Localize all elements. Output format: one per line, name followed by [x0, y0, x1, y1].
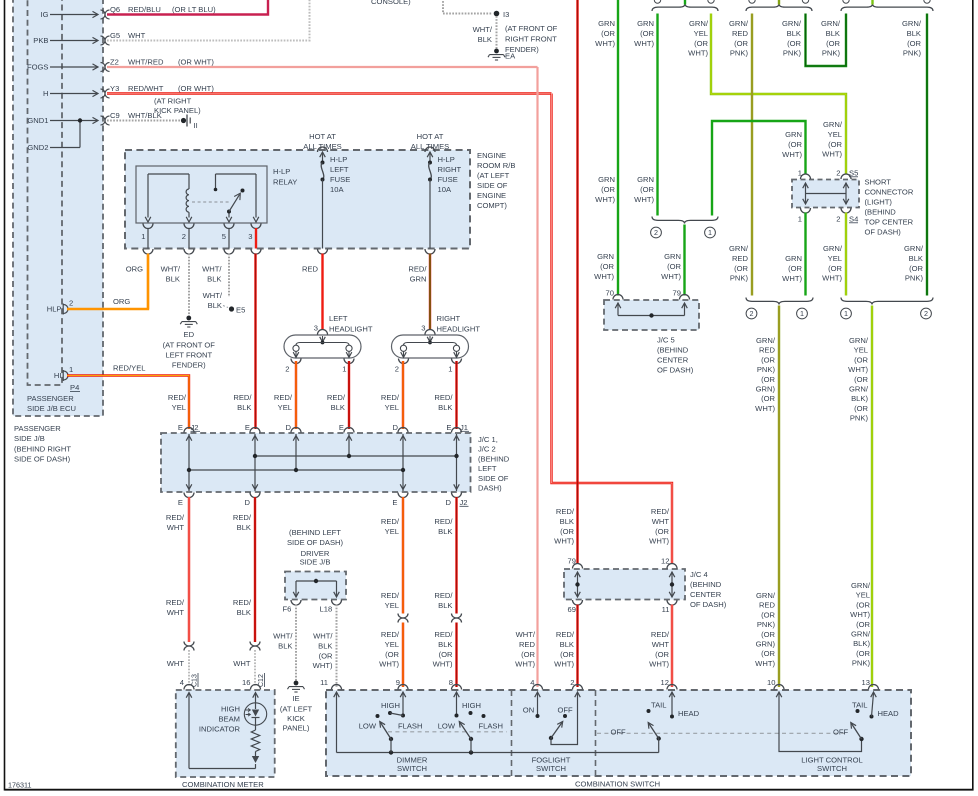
page border [4, 0, 6, 791]
svg-text:WHT): WHT) [755, 404, 775, 413]
svg-text:D: D [393, 423, 399, 432]
wire WHT/RED drop [536, 67, 538, 687]
svg-text:OFF: OFF [611, 728, 627, 737]
svg-text:TAIL: TAIL [852, 701, 867, 710]
J/C4 internals [577, 572, 579, 597]
svg-text:J/C 1,: J/C 1, [478, 435, 498, 444]
svg-text:(OR: (OR [655, 527, 669, 536]
svg-text:E: E [446, 423, 451, 432]
svg-text:COMBINATION METER: COMBINATION METER [182, 780, 264, 789]
svg-text:WHT: WHT [167, 608, 185, 617]
short connector box [792, 180, 859, 208]
svg-text:(OR: (OR [655, 650, 669, 659]
svg-text:HI: HI [54, 371, 62, 380]
ground II [181, 118, 186, 123]
svg-text:176311: 176311 [8, 781, 31, 790]
svg-text:YEL: YEL [694, 29, 708, 38]
svg-text:RED/: RED/ [434, 517, 453, 526]
meter pin cups [184, 685, 194, 690]
svg-text:(OR: (OR [856, 600, 870, 609]
brace 3b [841, 298, 933, 305]
svg-text:P4: P4 [70, 383, 79, 392]
svg-text:(OR: (OR [560, 650, 574, 659]
svg-text:PANEL): PANEL) [283, 724, 310, 733]
svg-text:(OR: (OR [826, 39, 840, 48]
svg-text:69: 69 [568, 605, 576, 614]
svg-text:(OR: (OR [761, 649, 775, 658]
junction I3 [494, 11, 500, 17]
wire LH pin2 RED/YEL [295, 361, 297, 429]
svg-text:WHT): WHT) [313, 661, 333, 670]
relay pin cups [143, 224, 153, 229]
svg-text:I3: I3 [503, 10, 509, 19]
ground IE [294, 681, 299, 686]
svg-text:LOW: LOW [438, 722, 456, 731]
svg-text:(BEHIND: (BEHIND [478, 454, 510, 463]
svg-text:(AT FRONT OF: (AT FRONT OF [505, 24, 558, 33]
svg-text:HLP: HLP [47, 305, 62, 314]
inline connector x=403 [398, 614, 408, 619]
svg-text:RED/: RED/ [651, 507, 670, 516]
svg-text:11: 11 [662, 605, 670, 614]
svg-text:RED: RED [519, 640, 536, 649]
wire GRN/YEL to pin13 [871, 306, 873, 688]
dimmer mech link [388, 731, 507, 733]
svg-text:GRN): GRN) [756, 640, 776, 649]
svg-text:PASSENGER: PASSENGER [14, 424, 61, 433]
svg-text:RED/: RED/ [434, 630, 453, 639]
svg-text:BLK: BLK [907, 29, 921, 38]
wire J/C4-11 RED/WHT [671, 605, 673, 688]
lightcontrol HEAD contact [870, 715, 874, 719]
svg-text:BLK: BLK [331, 403, 345, 412]
svg-text:TOP CENTER: TOP CENTER [865, 218, 914, 227]
svg-text:ORG: ORG [113, 297, 130, 306]
svg-text:(OR: (OR [761, 630, 775, 639]
svg-text:GRN: GRN [785, 254, 802, 263]
svg-text:YEL: YEL [856, 591, 870, 600]
svg-text:BLK): BLK) [851, 394, 868, 403]
svg-text:(OR: (OR [640, 185, 654, 194]
foglight ON contact [537, 693, 539, 716]
svg-text:FENDER): FENDER) [505, 45, 539, 54]
tailswitch arm [657, 736, 661, 740]
svg-text:PNK): PNK) [852, 659, 871, 668]
svg-text:FLASH: FLASH [398, 722, 422, 731]
svg-text:WHT: WHT [167, 523, 185, 532]
svg-text:RED: RED [732, 29, 749, 38]
svg-text:BLK: BLK [278, 641, 292, 650]
svg-text:RELAY: RELAY [273, 178, 297, 187]
svg-text:LEFT: LEFT [329, 314, 348, 323]
svg-text:GRN/: GRN/ [821, 19, 841, 28]
svg-text:GRN: GRN [637, 175, 654, 184]
svg-text:BLK: BLK [207, 274, 221, 283]
wire J/C to dimmer BLK upper [455, 497, 457, 614]
svg-text:BLK): BLK) [853, 639, 870, 648]
svg-text:SIDE J/B: SIDE J/B [14, 434, 45, 443]
svg-text:BEAM: BEAM [218, 715, 240, 724]
wire C9 WHT/BLK [107, 120, 181, 122]
dimmer left pin9 lead [402, 693, 404, 716]
svg-text:GRN: GRN [598, 175, 615, 184]
svg-text:CENTER: CENTER [690, 590, 722, 599]
svg-text:1: 1 [708, 228, 712, 237]
svg-text:2: 2 [836, 215, 840, 224]
svg-text:J2: J2 [191, 423, 199, 432]
svg-text:S4: S4 [849, 215, 858, 224]
circled 1 brace2b [797, 308, 808, 319]
relay H-LP box [136, 166, 267, 223]
svg-text:1: 1 [800, 309, 804, 318]
lightcontrol mech link [597, 732, 845, 734]
svg-text:BLK: BLK [237, 523, 251, 532]
svg-text:ED: ED [184, 330, 195, 339]
dimmer left HIGH contact [388, 711, 392, 715]
svg-text:RED/: RED/ [381, 630, 400, 639]
tailswitch stem [658, 739, 660, 753]
svg-text:YEL: YEL [172, 403, 186, 412]
wire HLP ORG [67, 254, 148, 309]
wire SC pin1 branch [712, 121, 806, 216]
wire GRN x618 [617, 0, 619, 296]
svg-text:RIGHT: RIGHT [437, 314, 461, 323]
wire GRN/RED to pin10 [778, 306, 780, 688]
svg-text:LEFT: LEFT [478, 464, 497, 473]
svg-text:LOW: LOW [359, 722, 377, 731]
svg-text:RED/: RED/ [233, 513, 252, 522]
wire GRN/BLK U [806, 14, 847, 67]
svg-text:(OR: (OR [856, 620, 870, 629]
svg-text:H-LP: H-LP [438, 155, 455, 164]
svg-text:5: 5 [222, 232, 226, 241]
svg-text:HIGH: HIGH [221, 705, 240, 714]
svg-text:WHT/: WHT/ [161, 265, 181, 274]
svg-text:WHT): WHT) [594, 272, 614, 281]
svg-text:GND2: GND2 [27, 143, 48, 152]
svg-text:GRN/: GRN/ [851, 581, 871, 590]
svg-text:(OR: (OR [319, 651, 333, 660]
svg-text:BLK: BLK [208, 301, 222, 310]
svg-text:1: 1 [342, 365, 346, 374]
svg-text:WHT): WHT) [554, 537, 574, 546]
wire SC pin2 down GRN/YEL [845, 213, 847, 296]
svg-text:HIGH: HIGH [462, 701, 481, 710]
svg-text:2: 2 [395, 365, 399, 374]
svg-text:10A: 10A [330, 185, 344, 194]
svg-text:WHT): WHT) [661, 272, 681, 281]
wire right fuse RED/GRN to headlight [429, 254, 431, 331]
svg-text:IG: IG [40, 10, 48, 19]
svg-text:J/C 5: J/C 5 [657, 336, 675, 345]
svg-text:(OR: (OR [907, 39, 921, 48]
svg-text:(OR: (OR [787, 39, 801, 48]
svg-text:RED/: RED/ [408, 265, 427, 274]
svg-text:(BEHIND: (BEHIND [657, 346, 689, 355]
svg-text:WHT: WHT [128, 31, 146, 40]
svg-text:HEAD: HEAD [878, 709, 900, 718]
svg-text:BLK: BLK [166, 274, 180, 283]
svg-text:WHT: WHT [167, 659, 185, 668]
svg-text:YEL: YEL [854, 346, 868, 355]
svg-text:(OR: (OR [828, 140, 842, 149]
svg-text:(OR: (OR [761, 394, 775, 403]
svg-text:YEL: YEL [278, 403, 292, 412]
J/C1 J/C2 box [161, 433, 471, 492]
svg-text:PNK): PNK) [730, 49, 749, 58]
svg-text:12: 12 [661, 557, 669, 566]
svg-text:E: E [178, 423, 183, 432]
wire J/C to meter RED/WHT [188, 497, 190, 642]
relay coil [147, 174, 149, 218]
passenger side J/B ECU box [28, 0, 63, 385]
svg-text:Z2: Z2 [110, 58, 119, 67]
svg-text:SIDE OF: SIDE OF [478, 474, 509, 483]
dimmer common bus [336, 693, 338, 753]
svg-text:(OR: (OR [788, 140, 802, 149]
svg-text:1: 1 [844, 309, 848, 318]
svg-text:ORG: ORG [126, 265, 143, 274]
wire J/C to dimmer YEL upper [402, 497, 404, 614]
svg-text:PNK): PNK) [905, 274, 924, 283]
svg-text:GRN/: GRN/ [729, 244, 749, 253]
wire WHT to meter pin16 [254, 650, 256, 687]
svg-text:10: 10 [767, 678, 775, 687]
svg-text:SIDE J/B: SIDE J/B [300, 558, 331, 567]
svg-text:RED/: RED/ [381, 517, 400, 526]
wire GRN x657 [656, 14, 658, 216]
svg-text:E: E [339, 423, 344, 432]
svg-text:SIDE J/B ECU: SIDE J/B ECU [27, 404, 76, 413]
svg-text:PKB: PKB [33, 36, 48, 45]
svg-text:BLK: BLK [438, 527, 452, 536]
wire to dimmer YEL lower [402, 623, 404, 688]
svg-text:(OR: (OR [909, 264, 923, 273]
wire RH pin1 RED/BLK [455, 361, 457, 429]
top brace 1 [652, 4, 718, 11]
svg-text:(OR: (OR [761, 610, 775, 619]
svg-text:RED/: RED/ [434, 591, 453, 600]
svg-text:COMPT): COMPT) [477, 201, 507, 210]
R/B bottom cups [143, 249, 153, 254]
svg-text:OF DASH): OF DASH) [690, 600, 727, 609]
combination meter box [176, 690, 275, 777]
svg-text:GRN/: GRN/ [756, 336, 776, 345]
tailswitch pin12 lead [671, 693, 673, 717]
svg-text:10A: 10A [438, 185, 452, 194]
svg-text:WHT/: WHT/ [202, 265, 222, 274]
svg-text:WHT/: WHT/ [516, 630, 536, 639]
dimmer right FLASH contact [482, 714, 486, 718]
svg-text:RED/: RED/ [166, 598, 185, 607]
svg-text:70: 70 [606, 289, 614, 298]
svg-text:WHT/: WHT/ [473, 25, 493, 34]
svg-text:RIGHT FRONT: RIGHT FRONT [505, 34, 557, 43]
brace 1b [652, 217, 718, 224]
inline connector meter right [250, 642, 260, 647]
svg-text:WHT): WHT) [595, 195, 615, 204]
left headlight [284, 335, 361, 358]
svg-text:CENTER: CENTER [657, 356, 689, 365]
svg-text:WHT/: WHT/ [313, 632, 333, 641]
passenger side J/B box [13, 0, 103, 416]
svg-text:WHT): WHT) [634, 195, 654, 204]
svg-text:(OR: (OR [667, 262, 681, 271]
GND1-GND2 junction [79, 121, 81, 148]
wire Y3 RED/WHT [107, 92, 552, 94]
J/C top cups [184, 428, 194, 433]
svg-text:PNK): PNK) [757, 620, 776, 629]
svg-text:J2: J2 [460, 498, 468, 507]
wire L18 WHT/BLK to pin11 [336, 605, 338, 688]
top circles [654, 0, 660, 3]
svg-text:WHT): WHT) [554, 660, 574, 669]
svg-text:G5: G5 [110, 31, 120, 40]
circled 2 brace3b [921, 308, 932, 319]
svg-text:BLK: BLK [478, 35, 492, 44]
svg-text:GRN/: GRN/ [823, 120, 843, 129]
svg-text:D: D [446, 498, 452, 507]
svg-text:GRN/: GRN/ [902, 19, 922, 28]
svg-text:RED/: RED/ [233, 598, 252, 607]
ground EA [494, 49, 499, 54]
svg-text:(OR: (OR [694, 39, 708, 48]
svg-text:RED/YEL: RED/YEL [113, 364, 146, 373]
svg-text:GRN/: GRN/ [849, 336, 869, 345]
fuse H-LP x=430 [425, 147, 435, 152]
svg-text:GRN: GRN [597, 252, 614, 261]
svg-text:RED/: RED/ [168, 393, 187, 402]
J/C4 box [564, 569, 685, 600]
svg-text:WHT): WHT) [688, 49, 708, 58]
svg-text:13: 13 [862, 678, 870, 687]
svg-text:L18: L18 [320, 605, 333, 614]
svg-text:(OR: (OR [856, 649, 870, 658]
svg-text:(OR: (OR [640, 29, 654, 38]
svg-text:OFF: OFF [833, 728, 849, 737]
svg-text:INDICATOR: INDICATOR [199, 725, 241, 734]
J/C5 cups [613, 295, 623, 300]
svg-text:RED/: RED/ [651, 630, 670, 639]
svg-text:1: 1 [798, 215, 802, 224]
svg-text:PNK): PNK) [850, 414, 869, 423]
svg-text:WHT): WHT) [515, 660, 535, 669]
svg-text:BLK: BLK [826, 29, 840, 38]
svg-text:H-LP: H-LP [330, 155, 347, 164]
svg-text:3: 3 [421, 324, 425, 333]
engine room R/B box [125, 150, 470, 249]
svg-text:(OR: (OR [854, 355, 868, 364]
junction E5 [229, 306, 234, 311]
svg-text:(OR WHT): (OR WHT) [178, 58, 214, 67]
svg-text:II: II [194, 121, 198, 130]
svg-text:GRN/: GRN/ [782, 19, 802, 28]
wire to dimmer BLK lower [455, 623, 457, 688]
svg-text:(OR: (OR [788, 264, 802, 273]
svg-text:FENDER): FENDER) [172, 361, 206, 370]
svg-text:PNK): PNK) [757, 365, 776, 374]
svg-text:GRN): GRN) [756, 385, 776, 394]
svg-text:GRN/: GRN/ [849, 385, 869, 394]
svg-text:YEL: YEL [385, 403, 399, 412]
svg-text:1: 1 [69, 365, 73, 374]
wire relay pin3 RED/BLK [254, 254, 256, 430]
J/C5 box [604, 300, 699, 330]
svg-text:WHT): WHT) [848, 365, 868, 374]
svg-text:BLK: BLK [787, 29, 801, 38]
svg-text:GRN/: GRN/ [851, 630, 871, 639]
svg-text:(LIGHT): (LIGHT) [865, 198, 893, 207]
svg-text:RED: RED [759, 346, 776, 355]
foglight OFF contact [563, 714, 567, 718]
svg-text:(OR WHT): (OR WHT) [178, 84, 214, 93]
divider light control [595, 690, 597, 776]
svg-text:HOT AT: HOT AT [417, 132, 444, 141]
svg-text:ON: ON [523, 706, 534, 715]
console box wire [443, 0, 492, 14]
svg-text:2: 2 [69, 299, 73, 308]
brace 2b [746, 298, 813, 305]
tailswitch TAIL contact [647, 709, 651, 713]
wire HI RED/YEL [67, 376, 189, 430]
svg-text:TAIL: TAIL [651, 701, 666, 710]
svg-text:WHT: WHT [652, 517, 670, 526]
svg-text:YEL: YEL [385, 640, 399, 649]
J/C internal wiring [188, 434, 190, 491]
svg-text:WHT): WHT) [850, 610, 870, 619]
dimmer right pin8 lead [456, 693, 458, 716]
svg-text:IE: IE [292, 694, 299, 703]
svg-text:SWITCH: SWITCH [397, 764, 427, 773]
switch pin cups [332, 685, 342, 690]
ground ED [186, 316, 191, 321]
svg-text:C9: C9 [110, 111, 120, 120]
wire J/C to meter RED/BLK [254, 497, 256, 642]
svg-text:4: 4 [180, 678, 184, 687]
dimmer right HIGH contact [469, 711, 473, 715]
relay switch [228, 212, 230, 218]
svg-text:KICK: KICK [287, 714, 305, 723]
svg-text:WHT/RED: WHT/RED [128, 58, 164, 67]
wire Z2 WHT/RED [107, 66, 538, 68]
svg-text:(OR: (OR [734, 39, 748, 48]
svg-text:FOGS: FOGS [27, 63, 49, 72]
svg-text:YEL: YEL [828, 254, 842, 263]
svg-text:WHT): WHT) [595, 39, 615, 48]
svg-text:C12: C12 [258, 674, 265, 687]
circled 2 brace1b [651, 227, 662, 238]
svg-text:CONSOLE): CONSOLE) [371, 0, 411, 6]
svg-text:WHT): WHT) [782, 274, 802, 283]
J/C4 cups [573, 564, 583, 569]
svg-text:GRN: GRN [637, 19, 654, 28]
svg-text:2: 2 [924, 309, 928, 318]
svg-text:RED/: RED/ [381, 591, 400, 600]
svg-text:(AT RIGHT: (AT RIGHT [154, 97, 192, 106]
svg-text:GRN: GRN [598, 19, 615, 28]
lightcontrol arm [859, 737, 863, 741]
svg-text:RED/: RED/ [381, 393, 400, 402]
svg-text:SIDE OF: SIDE OF [477, 181, 508, 190]
svg-text:PNK): PNK) [822, 49, 841, 58]
svg-text:OFF: OFF [558, 706, 574, 715]
svg-text:E: E [245, 423, 250, 432]
svg-text:WHT): WHT) [822, 274, 842, 283]
svg-text:YEL: YEL [828, 130, 842, 139]
svg-text:D: D [286, 423, 292, 432]
svg-text:RED/: RED/ [233, 393, 252, 402]
svg-text:(OR: (OR [761, 375, 775, 384]
